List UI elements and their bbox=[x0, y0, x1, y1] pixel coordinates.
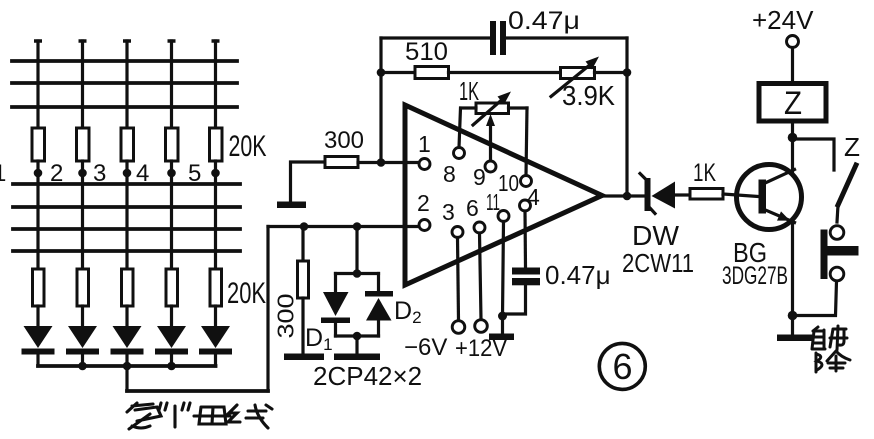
wire: matrix row line 1 bbox=[12, 59, 237, 63]
node: output dot bbox=[623, 192, 632, 201]
op-amp U1 triangle bbox=[405, 105, 602, 285]
label multi-1 bus (Chinese) hand strokes bbox=[127, 403, 272, 429]
wire: zener to 1K bbox=[675, 193, 690, 196]
node label 5 bbox=[188, 160, 201, 187]
pin 6 bbox=[466, 195, 485, 233]
svg-text:1: 1 bbox=[0, 160, 6, 187]
wire: column 1 upper bbox=[36, 41, 39, 128]
label D1 bbox=[305, 324, 333, 354]
svg-text:20K: 20K bbox=[227, 277, 266, 310]
resistor 20K column 3 top bbox=[121, 128, 134, 161]
wire: matrix row line 7 bbox=[13, 249, 240, 253]
diode column 5 bbox=[199, 326, 232, 366]
svg-text:2: 2 bbox=[50, 160, 63, 187]
node: column 3 dot bbox=[123, 169, 132, 178]
wire: pin 6 to +12V terminal bbox=[480, 233, 482, 320]
svg-text:2CP42×2: 2CP42×2 bbox=[313, 361, 422, 391]
svg-text:DW: DW bbox=[632, 220, 680, 251]
wire: feedback top line left bbox=[381, 36, 491, 39]
wire: column 5 upper bbox=[214, 41, 217, 128]
svg-text:11: 11 bbox=[486, 189, 500, 215]
resistor 20K column 3 bottom bbox=[122, 269, 134, 306]
node label 2 bbox=[50, 160, 63, 187]
wire: matrix row line 5 bbox=[13, 205, 240, 209]
relay coil Z bbox=[759, 84, 826, 122]
node: bus dot column 3 bbox=[123, 362, 132, 371]
wire: bus bottom run bbox=[127, 389, 268, 393]
label +12V bbox=[455, 335, 507, 362]
node: feedback tap dot bbox=[377, 158, 386, 167]
wire: diode pair branch bbox=[355, 227, 358, 274]
transistor BG 3DG27B bbox=[737, 165, 802, 230]
resistor 20K column 2 top bbox=[77, 128, 90, 161]
svg-text:1K: 1K bbox=[693, 159, 716, 187]
node: right feedback dot bbox=[623, 68, 632, 77]
ground (non-inverting input) bbox=[277, 202, 306, 209]
wire: pin 3 to -6V terminal bbox=[458, 238, 459, 321]
wire: matrix row line 4 bbox=[13, 182, 240, 186]
wire: column 2 lower bbox=[81, 306, 84, 327]
label Z (contact) bbox=[844, 132, 860, 162]
node: column 1 dot bbox=[34, 169, 43, 178]
node: 510 row left dot bbox=[377, 68, 386, 77]
diode D1 bbox=[321, 292, 350, 336]
pin 3 bbox=[442, 199, 463, 238]
capacitor 0.47u (pin 4) bbox=[512, 268, 540, 286]
wire: 300 ohm branch bbox=[301, 227, 304, 262]
wire: feedback top line right bbox=[506, 36, 627, 39]
node: diode pair top dot bbox=[353, 269, 362, 278]
svg-text:1: 1 bbox=[418, 131, 431, 157]
wire: column 5 lower bbox=[214, 306, 217, 327]
node: diode pair bottom dot bbox=[353, 332, 362, 341]
figure number 6 bbox=[599, 343, 645, 389]
value label 2CP42x2 bbox=[313, 361, 422, 391]
resistor 20K column 2 bottom bbox=[77, 269, 89, 306]
svg-text:3DG27B: 3DG27B bbox=[722, 262, 788, 290]
wire: inverting input line to pin 2 bbox=[268, 225, 419, 228]
svg-text:300: 300 bbox=[273, 294, 299, 339]
wire: column 2 upper bbox=[81, 41, 84, 128]
push button bridge bbox=[821, 230, 828, 280]
pin 4 bbox=[520, 184, 541, 211]
wire: column 3 middle bbox=[125, 161, 128, 269]
diode column 2 bbox=[66, 326, 99, 366]
svg-text:Z: Z bbox=[784, 85, 802, 121]
wire: 3.9K to right riser bbox=[595, 71, 628, 74]
value label 20K (top resistors) bbox=[229, 130, 267, 163]
wire: 510 to 3.9K bbox=[449, 71, 561, 74]
wire: column 4 middle bbox=[170, 161, 173, 269]
svg-text:510: 510 bbox=[405, 38, 448, 66]
wire: column 3 lower bbox=[125, 306, 128, 327]
wire: diode pair bottom bar bbox=[336, 334, 379, 337]
wire: bus drop bbox=[125, 366, 128, 391]
node: input line dot B bbox=[353, 222, 362, 231]
node: bus dot column 4 bbox=[167, 362, 176, 371]
wire: ground stub to 300 input resistor bbox=[291, 162, 326, 202]
switch blade (relay contact) bbox=[837, 165, 856, 222]
svg-text:6: 6 bbox=[612, 346, 632, 387]
resistor 300 (vertical) bbox=[298, 261, 309, 298]
svg-text:4: 4 bbox=[527, 184, 540, 210]
value label 300 (rotated) bbox=[273, 294, 299, 339]
wire: column 4 lower bbox=[170, 306, 173, 327]
node: +24V terminal bbox=[787, 36, 799, 48]
ground (pin 11) bbox=[489, 334, 514, 341]
resistor 3.9K (variable) bbox=[551, 57, 599, 97]
zener diode DW 2CW11 bbox=[640, 174, 675, 214]
resistor 20K column 1 top bbox=[32, 128, 45, 161]
capacitor 0.47u (feedback) bbox=[490, 21, 506, 55]
wire: pot right leg to pin 10 bbox=[526, 108, 527, 175]
node: collector branch dot bbox=[788, 133, 798, 143]
wire: pin 11 to ground bbox=[503, 222, 504, 317]
pin 11 bbox=[486, 189, 509, 222]
value label 1K (pot) bbox=[459, 76, 479, 106]
svg-text:8: 8 bbox=[443, 161, 456, 187]
wire: +24V to relay Z bbox=[791, 48, 794, 84]
svg-text:20K: 20K bbox=[229, 130, 267, 163]
wire: bus riser to input bbox=[266, 227, 269, 392]
ground (under 300 ohm) bbox=[284, 354, 324, 361]
contact: upper circle bbox=[830, 226, 844, 240]
wire: D1 upper lead bbox=[334, 274, 337, 293]
wire: multi-1 bus bbox=[38, 364, 216, 368]
label +24V bbox=[752, 5, 814, 35]
pin 10 bbox=[498, 170, 532, 196]
push button actuator bbox=[828, 246, 859, 256]
label BG bbox=[733, 237, 767, 268]
label 2CW11 bbox=[622, 248, 694, 278]
node: column 4 dot bbox=[167, 169, 176, 178]
wire: contact branch top bbox=[793, 139, 835, 170]
wire: 510 row left bbox=[381, 71, 415, 74]
svg-text:3: 3 bbox=[442, 199, 455, 225]
wire: diode pair top bar bbox=[336, 272, 379, 275]
pin 2 bbox=[417, 190, 430, 231]
wire: pot wiper from pin 9 bbox=[486, 114, 495, 161]
svg-text:3: 3 bbox=[93, 160, 106, 187]
wire: diode pair to ground bbox=[355, 336, 358, 354]
svg-text:3.9K: 3.9K bbox=[562, 80, 615, 111]
svg-text:6: 6 bbox=[466, 195, 479, 221]
node label 4 bbox=[136, 160, 149, 187]
pin 9 bbox=[473, 161, 496, 190]
value label 1K (base) bbox=[693, 159, 716, 187]
wire: matrix row line 3 bbox=[12, 105, 237, 109]
diode column 3 bbox=[111, 326, 144, 366]
wire: pin 4 down bbox=[523, 211, 527, 268]
pin 1 bbox=[418, 131, 431, 170]
label D2 bbox=[394, 297, 422, 327]
svg-text:5: 5 bbox=[188, 160, 201, 187]
label DW bbox=[632, 220, 680, 251]
resistor 300 (input, horizontal) bbox=[325, 157, 358, 168]
resistor 1K (base) bbox=[690, 189, 723, 200]
diode column 1 bbox=[22, 326, 55, 366]
value label 300 (input) bbox=[324, 127, 364, 154]
node: pin 11 ground dot bbox=[498, 312, 507, 321]
wire: contact branch bottom bbox=[798, 281, 837, 316]
diode column 4 bbox=[155, 326, 188, 366]
label -6V bbox=[404, 334, 447, 361]
svg-text:Z: Z bbox=[844, 132, 860, 162]
resistor 20K column 5 bottom bbox=[210, 269, 222, 306]
wire: 1K to base bbox=[723, 194, 759, 197]
contact: lower circle bbox=[830, 267, 844, 281]
wire: column 3 upper bbox=[125, 41, 128, 128]
node label 1 bbox=[0, 160, 6, 187]
svg-text:+24V: +24V bbox=[752, 5, 814, 35]
wire: left feedback riser bbox=[379, 38, 382, 163]
svg-text:300: 300 bbox=[324, 127, 364, 154]
wire: column 1 middle bbox=[36, 161, 39, 269]
wire: dot to ground bbox=[501, 316, 504, 334]
label jiechu (release) hand strokes bbox=[812, 326, 850, 372]
wire: matrix row line 6 bbox=[13, 227, 240, 231]
wire: matrix row line 2 bbox=[12, 81, 237, 85]
ground (under diode pair) bbox=[334, 354, 380, 361]
node: column 2 dot bbox=[78, 169, 87, 178]
wire: capacitor to pin 11 ground dot bbox=[503, 285, 526, 314]
wire: column 4 upper bbox=[170, 41, 173, 128]
wire: column 1 lower bbox=[36, 306, 39, 327]
label 3DG27B bbox=[722, 262, 788, 290]
value label 510 bbox=[405, 38, 448, 66]
value label 3.9K bbox=[562, 80, 615, 111]
wire: input resistor to pin 1 bbox=[358, 161, 419, 164]
resistor 510 bbox=[415, 67, 449, 79]
node: bus dot column 2 bbox=[78, 362, 87, 371]
node: -6V terminal bbox=[452, 321, 465, 334]
svg-text:1K: 1K bbox=[459, 76, 479, 106]
wire: emitter down bbox=[791, 223, 794, 335]
svg-text:0.47μ: 0.47μ bbox=[545, 260, 611, 290]
resistor 20K column 4 bottom bbox=[166, 269, 178, 306]
node: +12V terminal bbox=[475, 320, 488, 333]
value label 0.47u (feedback) bbox=[508, 7, 580, 35]
svg-text:9: 9 bbox=[473, 164, 486, 190]
resistor 1K (balance potentiometer) bbox=[461, 92, 527, 126]
node: column 5 dot bbox=[211, 169, 220, 178]
resistor 20K column 5 top bbox=[210, 128, 223, 161]
resistor 20K column 1 bottom bbox=[33, 269, 45, 306]
svg-text:4: 4 bbox=[136, 160, 149, 187]
node: input line dot A bbox=[300, 222, 309, 231]
value label 0.47u (pin 4) bbox=[545, 260, 611, 290]
node: emitter branch dot bbox=[788, 311, 798, 321]
diode D2 bbox=[365, 274, 393, 337]
value label 20K (bottom resistors) bbox=[227, 277, 266, 310]
wire: relay to collector bbox=[791, 121, 794, 171]
pin 8 bbox=[443, 148, 465, 188]
wire: pot left leg to pin 8 bbox=[459, 108, 461, 148]
ground (emitter) bbox=[777, 335, 812, 342]
wire: right feedback riser bbox=[625, 38, 628, 196]
svg-text:10: 10 bbox=[498, 170, 519, 196]
node label 3 bbox=[93, 160, 106, 187]
wire: column 2 middle bbox=[81, 161, 84, 269]
wire: 300 ohm to ground bbox=[301, 298, 304, 354]
svg-text:−6V: −6V bbox=[404, 334, 447, 361]
svg-text:0.47μ: 0.47μ bbox=[508, 7, 580, 35]
wire: column top caps bbox=[34, 39, 220, 43]
svg-text:2CW11: 2CW11 bbox=[622, 248, 694, 278]
wire: op-amp output bbox=[602, 194, 644, 197]
wire: column 5 middle bbox=[214, 161, 217, 269]
resistor 20K column 4 top bbox=[166, 128, 179, 161]
svg-text:2: 2 bbox=[417, 190, 430, 216]
